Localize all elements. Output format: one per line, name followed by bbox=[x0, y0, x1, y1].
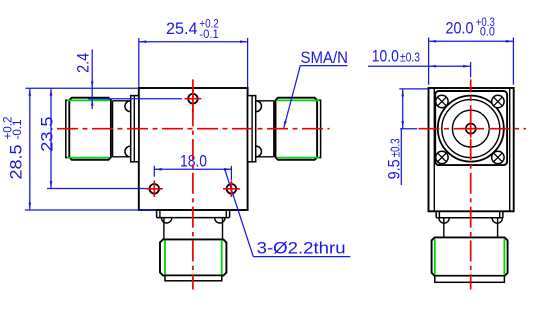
flange plate with rounded corners (side view) bbox=[435, 91, 507, 165]
flange screw top-left bbox=[436, 95, 448, 107]
side view block bbox=[429, 88, 514, 211]
side bottom connector knurl lines bbox=[435, 239, 505, 275]
dimension 9.5 ±0.3 bbox=[399, 89, 428, 185]
svg-text:25.4: 25.4 bbox=[166, 19, 198, 38]
mounting hole lower-left bbox=[150, 184, 160, 194]
dimension 10.0 ±0.3 bbox=[368, 62, 471, 78]
right connector knurl lines bbox=[277, 100, 320, 157]
bottom connector (side view) bbox=[432, 211, 508, 282]
red centerline vertical (side view) bbox=[470, 79, 472, 289]
svg-text:9.5: 9.5 bbox=[385, 159, 404, 179]
mounting hole top bbox=[188, 94, 198, 104]
svg-text:±0.3: ±0.3 bbox=[389, 138, 403, 157]
dimension 18.0 bbox=[154, 166, 231, 180]
red crosshair lower-right hole bbox=[223, 181, 240, 197]
red centerline horizontal (front view) bbox=[57, 128, 330, 130]
red crosshair side-view center bbox=[462, 120, 480, 138]
dimension 20.0 +0.3/0.0 bbox=[429, 38, 514, 85]
svg-text:10.0: 10.0 bbox=[372, 46, 399, 65]
flange screw bottom-right bbox=[492, 151, 504, 163]
svg-text:±0.3: ±0.3 bbox=[400, 50, 420, 64]
flange screw bottom-left bbox=[436, 151, 448, 163]
main body block (front view) bbox=[139, 88, 248, 210]
bottom SMA connector (front view) bbox=[157, 210, 230, 281]
svg-text:20.0: 20.0 bbox=[446, 18, 474, 37]
connector face circles bbox=[438, 96, 504, 162]
red centerline horizontal (side view) bbox=[419, 128, 527, 130]
left connector knurl lines bbox=[67, 100, 110, 157]
label 3-O2.2thru with leader bbox=[225, 169, 351, 257]
label SMA/N with leader bbox=[284, 66, 348, 128]
svg-text:28.5: 28.5 bbox=[7, 145, 26, 180]
mounting hole lower-right bbox=[227, 184, 237, 194]
dimension 28.5 +0.2/-0.1 bbox=[25, 88, 156, 210]
dimension 23.5 bbox=[47, 88, 150, 188]
svg-text:0.0: 0.0 bbox=[480, 26, 495, 38]
red centerline vertical (front view) bbox=[192, 79, 194, 289]
svg-text:-0.1: -0.1 bbox=[199, 29, 219, 41]
right SMA/N connector bbox=[248, 96, 321, 162]
flange screw top-right bbox=[492, 95, 504, 107]
svg-text:SMA/N: SMA/N bbox=[301, 48, 349, 67]
red crosshair top hole bbox=[185, 88, 202, 112]
bottom connector knurl lines bbox=[165, 241, 222, 275]
svg-text:-0.1: -0.1 bbox=[12, 120, 24, 140]
dimension 2.4 bbox=[26, 50, 183, 110]
svg-text:2.4: 2.4 bbox=[74, 53, 93, 73]
svg-text:23.5: 23.5 bbox=[37, 117, 56, 152]
dimension 25.4 +0.2/-0.1 bbox=[139, 38, 248, 87]
svg-text:3-Ø2.2thru: 3-Ø2.2thru bbox=[257, 239, 346, 258]
red crosshair lower-left hole bbox=[146, 181, 163, 197]
left SMA connector bbox=[66, 96, 139, 162]
